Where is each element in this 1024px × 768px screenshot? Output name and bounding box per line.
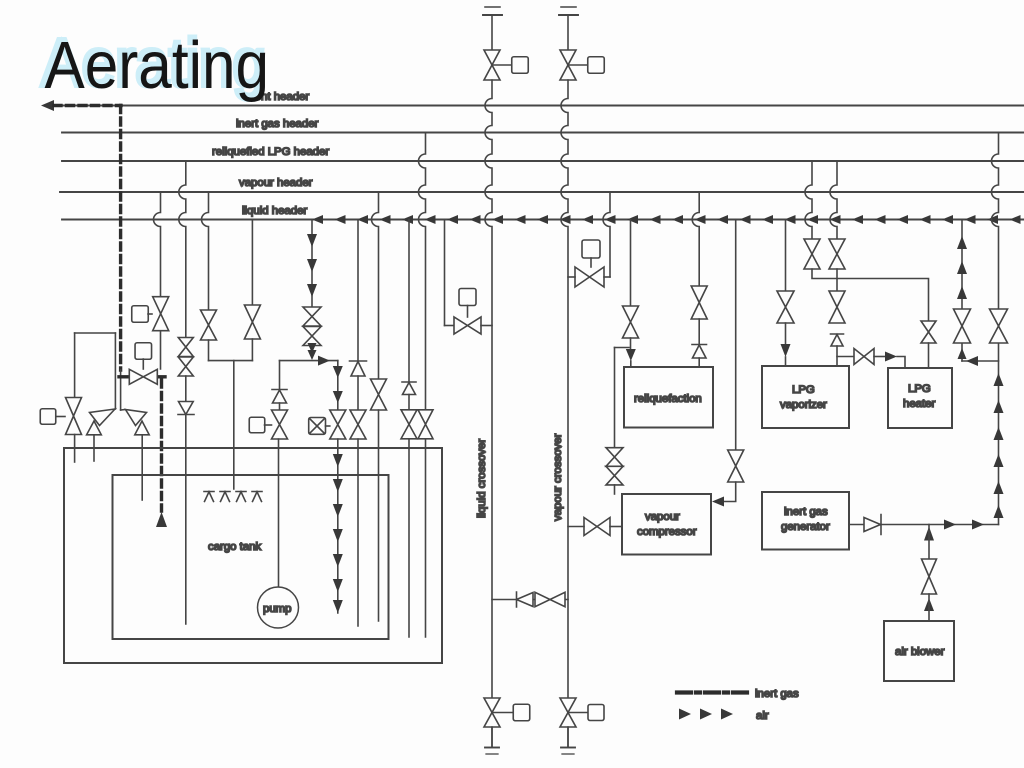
liquid crossover branch line [492,599,568,601]
air riser A arrows [958,348,967,359]
bypass actuator [582,240,600,258]
heater drop stub [928,343,930,368]
bypass right stub [604,276,610,278]
x358 stub [357,376,359,410]
pi right drop [114,333,116,409]
valve H lower [606,466,623,485]
F mid stub [698,319,700,344]
valve H upper [606,448,623,467]
check x358 [350,361,367,376]
valve F [691,286,707,319]
valve x252 [244,305,260,339]
drop line E x630 [630,220,632,307]
x208 lower stub [208,340,210,361]
valve liquid crossover bottom [484,698,500,727]
air riser B arrows [994,373,1004,386]
check pump branch [272,390,287,404]
LPG vaporizer box [762,366,849,428]
valve riser2 [560,50,576,80]
check x837 [831,334,844,346]
x312 junction run [280,360,338,362]
blower stub [928,594,930,621]
tank line x142 [141,435,143,500]
valve x185 upper [178,338,193,357]
cargo tank outer shell [64,448,442,663]
drop line F x699 [692,192,699,286]
valve riser1 actuator stem [492,64,512,66]
drop line x185 [179,161,186,338]
compressor riser H [614,348,616,449]
drop line x160 [154,192,161,369]
valve fill actuator [309,418,326,435]
air main arrows [944,520,956,530]
liquid header flow arrows [312,215,323,224]
valve blower [922,559,937,594]
blower arrows [924,598,934,611]
check angled 2 [126,410,147,426]
valve x928 [921,321,936,343]
check vertical 2 [135,421,149,435]
valve riser2 actuator stem [568,64,588,66]
tank line x379 [378,410,380,621]
valve x160 actuator stem [148,313,152,315]
valve x444 [454,317,481,334]
title Aerating main [45,27,270,103]
vapour crossover bottom flange [567,727,569,747]
heater feed run [837,356,854,358]
valve dashed-line actuator [135,343,152,360]
inert gas solid drop below junction [120,370,122,410]
legend inert gas sample [677,690,749,694]
spray nozzles [204,492,214,502]
vent mast 1 stem [491,16,493,50]
tank line x185 [185,415,187,625]
valve x312 upper [303,307,321,326]
dashed stubs at valve [119,375,130,378]
valve x837 upper [829,239,845,269]
vent mast 2 stem [567,16,569,50]
valve vcb actuator [588,705,604,721]
valve riser1 [484,50,500,80]
x785 stub [785,323,787,344]
x444 run to crossover [481,325,492,327]
tank line x358 [357,439,359,626]
reliquefied LPG header line [62,160,1024,162]
liquid tap x252 [251,220,253,306]
valve B [990,309,1008,343]
air riser B [992,133,999,525]
check vertical 1 [87,421,102,435]
reliq tap x812 [805,161,812,239]
valve x312 lower [303,327,321,346]
valve x444 actuator stem [467,306,469,318]
legend air sample [679,709,691,720]
vapour header line [60,191,1024,193]
air jog arrow [966,356,978,366]
blower junction arrow [924,527,934,541]
valve on dashed line [129,369,157,384]
generator outlet run [849,524,864,526]
valve vcb actuator stem [568,712,588,714]
fill branch drop [337,361,339,410]
check generator [864,515,881,535]
liquid header line [62,219,1024,221]
heater feed elbow [897,357,905,369]
vapour tap x379 [372,192,379,379]
compressor suction run [568,526,584,528]
liquid tap x444 [444,220,446,326]
valve G [728,450,744,482]
valve x358 [350,410,366,439]
valve x208 [201,310,217,340]
valve x185 lower [178,357,193,376]
liquid drop x121 lower [121,409,125,412]
check valve crossover branch [517,592,534,607]
vapour tap x208 [202,192,209,310]
air main run [881,524,999,526]
pi left drop [74,333,76,398]
valve heater feed [854,349,874,365]
valve x160 [153,297,169,331]
valve pi-left actuator [40,409,56,425]
vent header line [57,105,1024,107]
valve x160 actuator [132,306,149,323]
pump circle [258,587,299,628]
check x409 [402,382,416,395]
compressor suction valve [584,518,610,536]
vaporizer inlet stub 2 [836,346,838,366]
pump branch stub [279,403,281,410]
inert gas dashed drop [119,106,122,371]
svg-text:Aerating: Aerating [45,27,270,103]
fill column flow arrows [333,454,343,467]
fill column [337,439,339,613]
liquid crossover line [485,80,492,747]
valve E [623,306,639,338]
valve pi-left [66,398,82,435]
title Aerating shadow [42,25,267,101]
valve lcb actuator stem [492,712,513,714]
G elbow to compressor [724,482,736,502]
liquid crossover bottom flange [491,727,493,747]
x185 mid stub [185,376,187,401]
x837 mid stub [836,269,838,291]
junction arrow right [318,356,330,366]
valve x444 actuator [459,289,476,306]
valve crossover branch [535,592,565,606]
vent mast 2 flange [561,6,576,8]
valve x785 [777,291,794,323]
G arrow [712,497,724,507]
x252 lower stub [251,339,253,361]
inert gas generator box [762,492,849,550]
bypass to vapour crossover [568,276,575,278]
air riser A [961,220,963,362]
vent mast 1 flange [485,6,500,8]
x312 arrows below [308,343,317,353]
vaporizer inlet stub [785,357,787,366]
heater feed arrow [885,352,897,362]
liquid tap x409 [408,220,410,383]
valve fill branch [330,410,346,439]
valve pump branch [272,410,288,439]
check angled 1 [90,409,116,426]
vent header discharge arrow [41,100,54,111]
valve dashed-line actuator stem [142,359,144,369]
x312 flow arrows [307,234,317,247]
x444 run to valve [445,325,455,327]
reliquefaction inlet stub [630,361,632,367]
annulus line x409 [408,439,410,637]
inert gas dashed into tank [160,380,163,511]
air blower box [884,621,954,681]
cargo tank inner shell [113,475,389,639]
liquid tap x785 [785,220,787,292]
pump column [278,439,280,587]
valve x837 lower [829,291,845,323]
reliquefaction box [624,367,713,428]
check x185 [178,402,194,415]
valve x812 [804,239,820,269]
F inlet stub [698,358,700,367]
blower riser [928,525,930,560]
valve pump actuator stem [265,424,272,426]
inert gas tap x425 [419,133,426,411]
bypass actuator stem [590,258,592,267]
valve lcb actuator [513,704,530,721]
valve x425 [418,410,433,439]
inert gas header line [62,132,1024,134]
fill branch arrows [333,366,343,378]
valve vapour crossover bottom [560,698,576,727]
LPG heater box [888,368,952,428]
drop line G x735 [735,220,737,451]
inert gas dashed run to vent [54,104,121,107]
valve bypass [575,267,604,287]
liquid tap x312 [311,220,313,308]
vapour crossover line [561,80,568,747]
annulus line x425 [425,439,427,637]
valve x409 [401,410,417,439]
x409 stub [408,395,410,411]
valve fill actuator stem [326,425,330,427]
x812 elbow [812,269,929,321]
pump branch drop [279,361,281,389]
valve x379 [371,379,387,410]
heater feed arrow line [874,356,885,358]
valve A [954,309,971,343]
compressor riser H jog [615,347,630,349]
nozzle manifold run [209,360,253,362]
liquid tap x358 [357,220,359,362]
valve riser2 actuator [588,57,605,74]
nozzle drop line [233,361,235,489]
pi cluster top run [75,332,116,334]
check F [692,345,707,359]
E arrow into reliquefaction [630,338,632,349]
vapour compressor box [622,494,711,555]
bypass drop line x610 [603,192,610,277]
air jog run [962,360,999,362]
inert gas arrow in tank [156,512,167,527]
H lower stub [614,485,616,494]
tank stub x94 [93,435,95,461]
valve pi-left actuator stem [56,416,65,418]
valve riser1 actuator [512,57,529,74]
reliq tap x837 [830,161,837,239]
valve pump actuator [249,417,265,433]
x785 arrow [781,344,791,357]
pi left tank stub [74,435,76,463]
